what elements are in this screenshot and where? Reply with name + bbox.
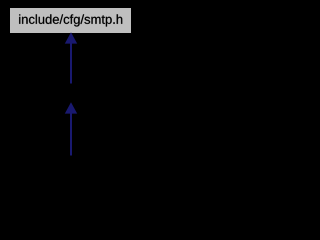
edge 1 arrowhead (65, 32, 77, 43)
node label include/cfg/smtp.h (19, 14, 122, 26)
edge 1 shaft (wire) (70, 44, 72, 84)
edge 2 shaft (wire) (70, 114, 72, 156)
edge 2 arrowhead (65, 102, 77, 113)
node box include/cfg/smtp.h (10, 8, 131, 33)
